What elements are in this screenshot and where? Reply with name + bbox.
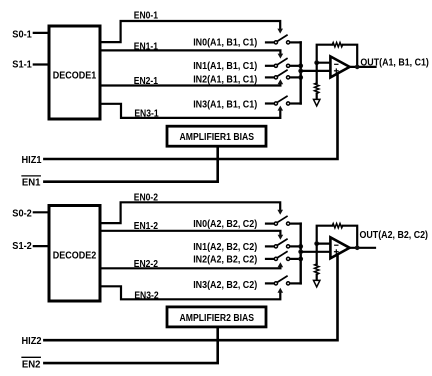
wire IN2-2 lead	[266, 258, 274, 260]
ground symbol (channel 2)	[314, 280, 320, 287]
wire feedback 2 right leg to output	[343, 226, 358, 248]
svg-text:S0-2: S0-2	[12, 208, 32, 219]
junction bus/amp line	[298, 69, 303, 74]
wire IN0-2 lead	[266, 223, 274, 225]
switch SW6 (IN1-2)	[274, 239, 289, 248]
svg-text:IN3(A2, B2, C2): IN3(A2, B2, C2)	[193, 280, 257, 291]
wire SW5 to bus	[290, 223, 301, 225]
wire op-amp 2 output	[350, 247, 375, 249]
bias block B2 AMPLIFIER2 BIAS box	[167, 307, 266, 327]
junction bus2/amp line	[298, 249, 303, 254]
op-amp U2 triangle	[330, 56, 349, 77]
net EN2-1 arrowhead	[278, 79, 284, 84]
switch SW8 (IN3-2)	[274, 276, 289, 285]
switch SW4 (IN3)	[274, 96, 289, 105]
wire - input 2	[317, 243, 331, 245]
wire SW4 to bus	[290, 102, 301, 104]
net EN2 wire (to AMPLIFIER2 BIAS)	[44, 328, 217, 363]
net EN0-2 wire (decoder to switch SW5 control, down arrow)	[100, 202, 280, 223]
wire bus2 to op-amp U4 + input	[301, 251, 331, 253]
switch SW1 (IN0)	[274, 35, 289, 44]
junction SW2/bus	[298, 63, 303, 68]
net EN0-1 wire (decoder to switch SW1 control, down arrow)	[100, 21, 280, 42]
wire IN0 lead	[266, 41, 274, 43]
switch SW5 (IN0-2)	[274, 216, 289, 225]
bias block B1 AMPLIFIER1 BIAS box	[167, 126, 266, 146]
net EN3-2 arrowhead	[278, 288, 284, 293]
resistor R2 (to ground)	[315, 83, 319, 94]
wire - node to resistor R2	[316, 63, 318, 83]
switch SW3 (IN2)	[274, 70, 289, 79]
decoder U3 DECODE2 box	[49, 206, 100, 302]
ground symbol (channel 1)	[314, 99, 320, 106]
op-amp U2 plus sign	[335, 70, 339, 72]
svg-text:EN2: EN2	[22, 359, 41, 370]
wire - node 2 to resistor R4	[316, 244, 318, 264]
wire IN3 lead	[266, 102, 274, 104]
svg-text:AMPLIFIER1 BIAS: AMPLIFIER1 BIAS	[180, 132, 255, 143]
wire R2 to ground	[316, 94, 318, 100]
svg-text:OUT(A2, B2, C2): OUT(A2, B2, C2)	[360, 230, 429, 241]
net EN3-2 wire (decoder to switch SW8 control, up arrow)	[100, 286, 280, 299]
net EN2-2 arrowhead	[278, 262, 284, 267]
wire op-amp output	[350, 66, 376, 68]
svg-text:EN1-2: EN1-2	[134, 221, 159, 232]
wire SW8 to bus	[290, 282, 301, 284]
resistor R4 (to ground)	[315, 264, 319, 275]
junction SW6/bus	[298, 244, 303, 249]
wire IN3-2 lead	[266, 282, 274, 284]
junction output2/feedback	[355, 246, 360, 251]
net EN1-2 wire (decoder to switch SW6 control, down arrow)	[100, 231, 280, 236]
svg-text:HIZ1: HIZ1	[22, 155, 42, 166]
net EN1-1 wire (decoder to switch SW2 control, down arrow)	[100, 50, 280, 54]
wire feedback right leg to output	[343, 45, 358, 67]
svg-text:EN0-2: EN0-2	[134, 192, 159, 203]
svg-text:IN3(A1, B1, C1): IN3(A1, B1, C1)	[193, 99, 257, 110]
svg-text:EN1: EN1	[22, 178, 41, 189]
svg-text:EN3-1: EN3-1	[134, 109, 159, 120]
svg-text:HIZ2: HIZ2	[22, 336, 42, 347]
net EN0-2 arrowhead	[277, 210, 283, 215]
svg-text:S1-2: S1-2	[12, 241, 32, 252]
svg-text:DECODE2: DECODE2	[53, 251, 97, 262]
wire SW6 to bus	[290, 245, 301, 247]
net EN1-2 arrowhead	[278, 235, 284, 240]
net EN1 overline	[22, 175, 40, 177]
op-amp U2 minus sign	[335, 63, 338, 65]
wire IN1 lead	[266, 65, 274, 67]
resistor R1 (feedback)	[332, 43, 342, 47]
resistor R3 (feedback 2)	[332, 224, 342, 228]
op-amp U4 minus sign	[335, 244, 338, 246]
wire SW3 to bus	[290, 76, 301, 78]
wire feedback 2 left leg + top	[317, 226, 333, 244]
svg-text:EN2-2: EN2-2	[134, 259, 159, 270]
net EN1-1 arrowhead	[278, 54, 284, 59]
junction feedback2/- input	[314, 241, 319, 246]
net EN2-2 wire (decoder to switch SW7 control, up arrow)	[100, 267, 280, 269]
junction SW3/bus	[298, 75, 303, 80]
wire SW1 to bus	[290, 41, 301, 43]
wire S1-2 to DECODE2	[34, 245, 48, 247]
net EN3-1 wire (decoder to switch SW4 control, up arrow)	[100, 104, 280, 118]
wire R4 to ground	[316, 275, 318, 281]
decoder U1 DECODE1 box	[49, 26, 100, 119]
wire feedback left leg + top	[317, 45, 333, 63]
op-amp U4 plus sign	[335, 251, 339, 253]
wire bus to op-amp U2 + input	[301, 70, 331, 72]
svg-text:EN0-1: EN0-1	[134, 10, 159, 21]
net EN2 overline	[22, 356, 40, 358]
net EN0-1 arrowhead	[277, 29, 283, 34]
junction feedback/- input	[314, 60, 319, 65]
wire SW7 to bus	[290, 258, 301, 260]
switch SW7 (IN2-2)	[274, 252, 289, 261]
svg-text:AMPLIFIER2 BIAS: AMPLIFIER2 BIAS	[180, 313, 255, 324]
svg-text:DECODE1: DECODE1	[53, 70, 97, 81]
svg-text:S0-1: S0-1	[12, 29, 32, 40]
wire S1-1 to DECODE1	[34, 63, 48, 65]
net EN1 wire (to AMPLIFIER1 BIAS)	[44, 148, 217, 182]
net EN2-1 wire (decoder to switch SW3 control, up arrow)	[100, 84, 280, 86]
net EN3-1 arrowhead	[278, 106, 284, 111]
op-amp U4 triangle	[330, 237, 349, 258]
svg-text:IN0(A2, B2, C2): IN0(A2, B2, C2)	[193, 219, 257, 230]
net HIZ1 wire (to op-amp bias pin)	[44, 75, 337, 160]
svg-text:OUT(A1, B1, C1): OUT(A1, B1, C1)	[360, 57, 429, 68]
junction output/feedback	[355, 65, 360, 70]
svg-text:IN1(A2, B2, C2): IN1(A2, B2, C2)	[193, 242, 257, 253]
wire mux output bus (vertical)	[300, 42, 302, 103]
svg-text:IN2(A1, B1, C1): IN2(A1, B1, C1)	[193, 74, 257, 85]
wire IN1-2 lead	[266, 245, 274, 247]
wire S0-2 to DECODE2	[34, 211, 48, 213]
svg-text:IN0(A1, B1, C1): IN0(A1, B1, C1)	[193, 38, 257, 49]
junction SW7/bus	[298, 257, 303, 262]
switch SW2 (IN1)	[274, 59, 289, 68]
wire S0-1 to DECODE1	[34, 32, 48, 34]
svg-text:IN1(A1, B1, C1): IN1(A1, B1, C1)	[193, 61, 257, 72]
wire SW2 to bus	[290, 65, 301, 67]
svg-text:EN1-1: EN1-1	[134, 42, 159, 53]
wire - input	[317, 62, 331, 64]
svg-text:S1-1: S1-1	[12, 59, 32, 70]
net HIZ2 wire (to op-amp 2 bias pin)	[44, 255, 337, 340]
wire mux output bus 2 (vertical)	[300, 224, 302, 284]
svg-text:IN2(A2, B2, C2): IN2(A2, B2, C2)	[193, 255, 257, 266]
svg-text:EN2-1: EN2-1	[134, 76, 159, 87]
wire IN2 lead	[266, 76, 274, 78]
svg-text:EN3-2: EN3-2	[134, 291, 159, 302]
